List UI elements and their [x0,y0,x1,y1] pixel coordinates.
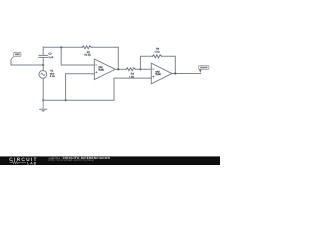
logo CIRCUITLAB [9,157,38,165]
junction dot rail OA1 plus branch [65,99,67,101]
label OA2 TL081 [155,70,161,76]
label R3 1k [129,73,134,79]
junction dot OA2 output [174,72,176,74]
svg-text:http://circuitlab.com/c5y3kup: http://circuitlab.com/c5y3kup [49,158,95,162]
junction dot OA2 feedback node [139,68,141,70]
svg-text:0 Hz: 0 Hz [50,75,56,78]
label R4 1k [155,48,160,54]
svg-text:1 µF: 1 µF [48,56,54,59]
wire OA1 output [115,68,126,70]
junction dot OA1 output [117,68,119,70]
capacitor C2 [39,55,48,57]
wire OA2 feedback left vertical [140,56,152,69]
wire R2 feedback vertical [117,47,119,69]
junction dot ground node [42,99,44,101]
wire top net right segment [91,46,118,48]
ground [40,100,47,112]
label C2 1uF [48,52,54,59]
wire OA2 non-inverting input [114,78,151,100]
wire R4 to OA2 output [162,56,176,73]
svg-text:TL081: TL081 [155,73,161,76]
wire R3 to OA2 inverting input [135,68,151,70]
wire bottom ground rail [43,99,114,101]
resistor R3 [126,68,135,71]
label V2 sine [50,70,56,79]
voltage source V2 [39,71,47,79]
junction dot node mic [42,64,44,66]
flag Vout [199,66,209,73]
footer bar [0,156,220,165]
wire OA1 non-inverting input [66,74,95,101]
svg-text:TL081: TL081 [98,69,104,72]
wire top net left segment [43,46,82,48]
wire OA2 output [172,73,201,75]
wire C2 bottom to V2 top [42,58,44,71]
resistor R4 [153,55,162,58]
svg-text:1 kΩ: 1 kΩ [155,50,160,53]
svg-text:91 kΩ: 91 kΩ [84,54,91,57]
wire OA1 inverting input [61,47,94,65]
wire from mic flag to node mic [11,60,43,65]
resistor R2 [82,46,91,49]
wire C2 top to top net [42,47,44,55]
wire V2 bottom to ground node [42,78,44,100]
op-amp OA2 [151,63,172,84]
label OA1 TL081 [98,66,104,72]
label R2 91k [84,51,91,57]
svg-text:LAB: LAB [27,161,37,165]
flag mic [11,52,21,60]
op-amp OA1 [94,59,115,80]
junction dot top net branch [60,46,62,48]
